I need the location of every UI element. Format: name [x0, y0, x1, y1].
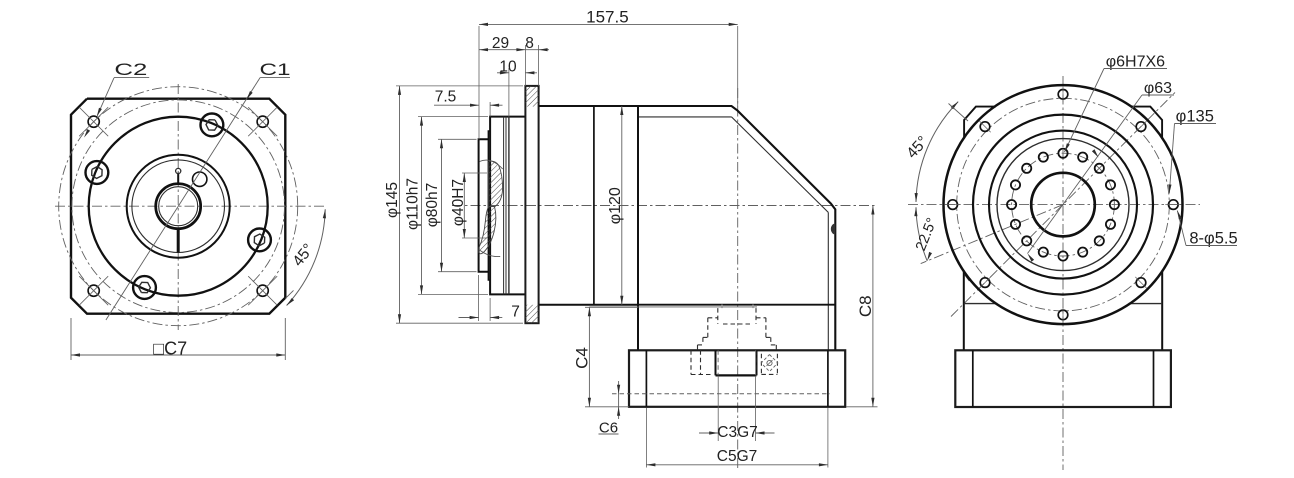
hub section P3 (phi110h7): [490, 117, 525, 295]
svg-text:8-φ5.5: 8-φ5.5: [1189, 229, 1237, 247]
body bottom edge: [638, 304, 835, 306]
chamfer extension line: [949, 104, 969, 122]
top-right corner tab: [1130, 107, 1162, 139]
svg-text:φ40H7: φ40H7: [450, 179, 467, 226]
svg-text:φ145: φ145: [384, 182, 401, 218]
small hole 3 (phi6H7): [1095, 236, 1104, 245]
boss inner circle: [132, 160, 225, 253]
boss outer circle: [127, 155, 230, 258]
dim phi120: [621, 106, 623, 305]
svg-text:C5G7: C5G7: [717, 448, 758, 465]
outer flange circle: [944, 85, 1183, 324]
dim C6: [618, 381, 620, 419]
small hole 1 (phi6H7): [1110, 200, 1119, 209]
output axis centerline: [737, 88, 739, 470]
internal ring line: [503, 117, 505, 295]
pin mark at top of bore: [177, 173, 179, 185]
dim 29: [524, 45, 526, 86]
small hole 7 (phi6H7): [1022, 236, 1031, 245]
reference circle (C7): [72, 100, 285, 313]
bolt hole 2 (phi5.5): [1136, 278, 1146, 288]
fillet edge line: [589, 306, 757, 308]
bolt circle phi135: [957, 98, 1170, 311]
svg-text:φ135: φ135: [1176, 107, 1214, 125]
chamfer extension line: [285, 290, 293, 298]
coupling bottom arc: [479, 250, 500, 257]
bolt hole 5 (phi5.5): [948, 200, 958, 210]
hub ring P2: [488, 131, 490, 280]
svg-text:C2: C2: [114, 60, 147, 79]
inner circle: [989, 131, 1137, 279]
svg-text:φ80h7: φ80h7: [424, 183, 441, 228]
dim phi80h7: [438, 138, 477, 140]
dim 8: [539, 48, 548, 51]
flange hatch top: [525, 86, 538, 107]
small hole 12 (phi6H7): [1039, 153, 1048, 162]
bore circle C1: [156, 184, 201, 229]
svg-text:C8: C8: [856, 295, 875, 317]
base step left: [645, 350, 647, 407]
inner circle 2: [997, 139, 1129, 271]
small hole 9 (phi6H7): [1007, 200, 1016, 209]
svg-text:C4: C4: [573, 347, 592, 369]
svg-text:C3G7: C3G7: [717, 424, 758, 441]
small hole 16 (phi6H7): [1106, 180, 1115, 189]
dimension C7: [70, 318, 72, 360]
arrowhead on outer circle lower-left: [964, 274, 972, 281]
body circle phi110: [89, 117, 268, 296]
base step right: [827, 350, 829, 407]
base step right: [1153, 350, 1155, 407]
svg-text:29: 29: [492, 35, 509, 52]
coupling cross-section lower lobe: [479, 207, 496, 254]
C2 arrow at corner hole: [97, 108, 102, 117]
bolt hole 7 (phi5.5): [1058, 90, 1068, 100]
base step left: [972, 350, 974, 407]
bolt hole 3 (phi5.5): [1058, 310, 1068, 320]
cylinder bottom edge right: [1129, 303, 1163, 305]
chamfer inner edge: [732, 117, 829, 212]
22.5deg dimension arc: [916, 207, 927, 261]
body right inner edge: [827, 212, 829, 350]
dim 10: [508, 68, 510, 117]
hub plate P1 (phi80h7): [479, 139, 489, 271]
cylinder step line: [593, 106, 595, 305]
cylinder bottom edge: [539, 304, 638, 306]
small hole 13 (phi6H7): [1058, 149, 1067, 158]
dim C8: [846, 406, 878, 408]
cylinder bottom edge left: [964, 303, 998, 305]
bore inner circle: [159, 187, 198, 226]
square flange outline: [71, 99, 285, 314]
output bore C3G7: [715, 350, 717, 375]
small hole 14 (phi6H7): [1078, 153, 1087, 162]
dim phi40H7: [462, 172, 487, 174]
vertical centerline: [1062, 76, 1064, 470]
body left edge: [637, 106, 639, 350]
C1 arrow at square top edge: [247, 91, 253, 100]
bore chamfer hidden line: [717, 350, 719, 375]
corner hole 3: [88, 285, 99, 296]
second arrow on diagonal: [84, 129, 90, 138]
bolt hole 8 (phi5.5): [1136, 122, 1146, 132]
small diamond symbol: [761, 355, 778, 372]
45deg dimension arc: [916, 102, 958, 202]
dim 157.5: [478, 26, 480, 139]
svg-text:8: 8: [525, 35, 534, 52]
small hole 10 (phi6H7): [1011, 180, 1020, 189]
svg-text:157.5: 157.5: [586, 8, 629, 27]
45 deg chamfer dimension arc: [287, 209, 326, 305]
bolt hole 6 (phi5.5): [980, 122, 990, 132]
small hole 11 (phi6H7): [1022, 164, 1031, 173]
socket screw 4: [86, 161, 109, 184]
small hole 4 (phi6H7): [1078, 248, 1087, 257]
small hole 6 (phi6H7): [1039, 248, 1048, 257]
small hole 15 (phi6H7): [1095, 164, 1104, 173]
small hole 5 (phi6H7): [1058, 251, 1067, 260]
base front view: [955, 350, 1171, 407]
dim 7.5: [489, 102, 491, 117]
dim C5G7: [645, 408, 647, 468]
horizontal centerline: [908, 204, 1200, 206]
bolt hole 1 (phi5.5): [1169, 200, 1179, 210]
svg-text:7.5: 7.5: [435, 89, 457, 106]
corner hole 4: [257, 285, 268, 296]
dim 7: [478, 275, 480, 321]
plug on right edge: [831, 224, 836, 235]
small hole 8 (phi6H7): [1011, 220, 1020, 229]
corner hole 1: [88, 116, 99, 127]
output bore phi40: [1031, 173, 1095, 237]
small hole near bore: [193, 172, 207, 186]
bolt hole 4 (phi5.5): [980, 278, 990, 288]
socket screw 2: [248, 229, 271, 252]
svg-text:C1: C1: [260, 60, 291, 79]
motor flange plate (phi145): [525, 86, 538, 323]
hidden line in base: [612, 393, 830, 395]
small hole 2 (phi6H7): [1106, 220, 1115, 229]
gearbox body outline: [539, 106, 836, 350]
45deg diagonal centerline: [951, 93, 1175, 317]
svg-text:□C7: □C7: [153, 338, 187, 358]
body sides behind flange: [963, 271, 965, 351]
flange hatch bottom: [525, 305, 538, 323]
coupling top arc: [480, 160, 503, 169]
dim C4: [585, 306, 638, 308]
flange step circle: [973, 115, 1153, 295]
input axis centerline: [452, 205, 877, 207]
svg-text:7: 7: [511, 304, 520, 321]
dim phi110h7: [418, 116, 488, 118]
phi63 arrow upper: [1092, 149, 1099, 157]
top-left corner tab: [964, 107, 996, 139]
svg-text:φ63: φ63: [1144, 80, 1172, 97]
svg-text:10: 10: [499, 58, 517, 75]
keyway slot: [177, 229, 180, 253]
22.5deg radial centerline: [921, 205, 1063, 264]
dim phi145: [396, 85, 523, 87]
hidden output coupling: [721, 305, 723, 309]
label C1 leader: [106, 78, 260, 320]
internal ring line: [505, 117, 507, 295]
hole circle phi63: [1012, 153, 1115, 256]
corner hole 2: [257, 116, 268, 127]
svg-text:φ110h7: φ110h7: [405, 178, 422, 230]
corner-hole bolt circle: [59, 87, 298, 326]
svg-text:φ120: φ120: [607, 187, 624, 224]
hidden pocket left of bore: [690, 350, 692, 374]
dim C3G7: [717, 376, 719, 441]
internal ring line: [508, 117, 510, 295]
horizontal centerline: [55, 205, 326, 207]
socket screw 1: [201, 114, 224, 137]
bore chamfer hidden line: [755, 350, 757, 375]
mounting base: [629, 350, 845, 407]
socket screw 3: [133, 276, 156, 299]
body top inner edge: [638, 116, 732, 118]
phi63 arrow lower: [1028, 254, 1035, 262]
vertical centerline: [177, 84, 179, 330]
svg-text:φ6H7X6: φ6H7X6: [1106, 53, 1165, 70]
label C2 leader: [97, 78, 114, 116]
hidden pocket right of bore (with diamond): [760, 354, 762, 375]
